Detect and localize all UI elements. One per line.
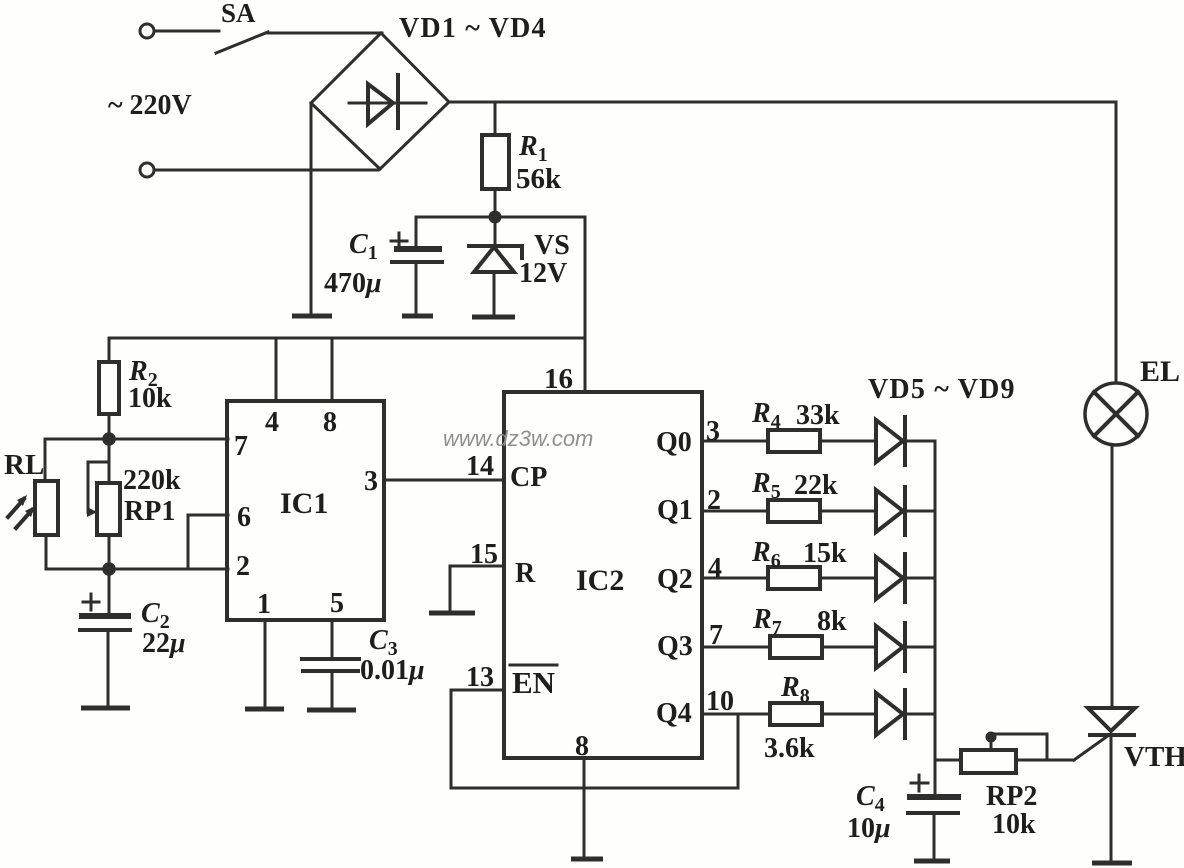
svg-text:IC1: IC1 bbox=[280, 487, 328, 520]
resistor R2 bbox=[99, 338, 119, 439]
ground (pin15) bbox=[429, 611, 475, 616]
svg-text:4: 4 bbox=[265, 407, 279, 438]
Q2 row: wire, resistor R6, diode VD7 bbox=[702, 554, 935, 602]
capacitor C4 bbox=[907, 775, 961, 859]
svg-text:1: 1 bbox=[257, 589, 271, 620]
svg-text:4: 4 bbox=[708, 553, 722, 584]
svg-text:8k: 8k bbox=[817, 606, 847, 637]
svg-text:R1: R1 bbox=[518, 131, 548, 166]
wire bbox=[416, 216, 585, 219]
svg-text:7: 7 bbox=[234, 431, 248, 462]
svg-text:SA: SA bbox=[221, 0, 256, 28]
terminal T2 bbox=[140, 163, 154, 177]
wire pin2 bbox=[46, 568, 228, 571]
svg-text:220k: 220k bbox=[123, 465, 181, 496]
ground (C2) bbox=[81, 706, 130, 711]
svg-text:470μ: 470μ bbox=[324, 268, 382, 299]
thyristor VTH bbox=[1074, 708, 1135, 861]
svg-text:RP1: RP1 bbox=[124, 496, 175, 527]
svg-text:www.dz3w.com: www.dz3w.com bbox=[443, 426, 593, 451]
svg-text:10k: 10k bbox=[128, 383, 172, 414]
zener VS bbox=[469, 217, 522, 315]
svg-text:2: 2 bbox=[236, 551, 250, 582]
svg-text:Q4: Q4 bbox=[656, 698, 692, 729]
svg-text:14: 14 bbox=[466, 451, 494, 482]
wire bbox=[266, 32, 382, 35]
op IC1 box bbox=[227, 401, 384, 620]
svg-text:10μ: 10μ bbox=[847, 813, 891, 844]
wire pin6 bbox=[188, 515, 228, 569]
bridge rectifier VD1~VD4 bbox=[311, 33, 449, 169]
pin 5 bbox=[331, 620, 334, 659]
svg-text:13: 13 bbox=[466, 662, 494, 693]
pin 13 EN wire bbox=[451, 690, 738, 788]
ground (C3) bbox=[307, 708, 356, 713]
capacitor C1 bbox=[391, 217, 442, 314]
ground (pin8) bbox=[571, 857, 603, 862]
pin 8 bbox=[331, 338, 334, 401]
lamp EL bbox=[1085, 383, 1147, 445]
svg-text:EL: EL bbox=[1140, 355, 1180, 388]
terminal T1 bbox=[140, 24, 154, 38]
Q0 row: wire, resistor R4, diode VD5 bbox=[702, 417, 935, 465]
node junction bbox=[489, 211, 502, 224]
svg-text:3: 3 bbox=[364, 466, 378, 497]
wire pin7 bbox=[45, 438, 228, 441]
svg-text:RL: RL bbox=[4, 449, 44, 481]
pin 4 bbox=[275, 338, 278, 401]
svg-text:R4: R4 bbox=[751, 398, 781, 433]
svg-text:56k: 56k bbox=[516, 163, 562, 195]
ground (bridge) bbox=[292, 103, 332, 316]
node junction bbox=[102, 432, 116, 446]
svg-text:8: 8 bbox=[575, 731, 589, 762]
svg-text:22μ: 22μ bbox=[142, 628, 186, 659]
counter IC2 box bbox=[504, 392, 702, 758]
Q3 row: wire, resistor R7, diode VD8 bbox=[702, 623, 935, 671]
photoresistor RL bbox=[8, 439, 58, 569]
svg-text:Q2: Q2 bbox=[657, 564, 693, 595]
svg-text:VTH: VTH bbox=[1124, 741, 1184, 773]
wire top rail bbox=[449, 102, 1116, 383]
svg-text:~ 220V: ~ 220V bbox=[108, 90, 192, 121]
svg-text:3: 3 bbox=[706, 416, 720, 447]
Q1 row: wire, resistor R5, diode VD6 bbox=[702, 487, 935, 535]
svg-text:R6: R6 bbox=[751, 537, 781, 572]
pin 3 bbox=[384, 479, 504, 482]
capacitor C3 bbox=[302, 659, 359, 708]
svg-text:C1: C1 bbox=[349, 229, 378, 264]
ground (C4) bbox=[914, 859, 950, 864]
svg-text:22k: 22k bbox=[794, 470, 838, 501]
svg-text:7: 7 bbox=[709, 620, 723, 651]
svg-text:CP: CP bbox=[510, 462, 547, 493]
node junction bbox=[102, 562, 116, 576]
svg-text:15: 15 bbox=[470, 539, 498, 570]
svg-text:R8: R8 bbox=[780, 672, 810, 707]
right bus wire bbox=[934, 441, 937, 796]
capacitor C2 bbox=[79, 569, 131, 706]
svg-text:Q3: Q3 bbox=[657, 631, 693, 662]
svg-text:6: 6 bbox=[237, 502, 251, 533]
svg-text:Q1: Q1 bbox=[657, 495, 693, 526]
svg-text:RP2: RP2 bbox=[986, 781, 1037, 812]
svg-text:R5: R5 bbox=[751, 468, 781, 503]
Q4 row: wire, resistor R8, diode VD9 bbox=[702, 690, 935, 738]
pin 1 bbox=[264, 620, 267, 708]
svg-text:5: 5 bbox=[330, 588, 344, 619]
svg-text:IC2: IC2 bbox=[576, 564, 624, 597]
svg-text:3.6k: 3.6k bbox=[764, 733, 815, 764]
resistor R1 bbox=[482, 102, 509, 217]
svg-text:10k: 10k bbox=[992, 809, 1036, 840]
svg-text:VD5 ~ VD9: VD5 ~ VD9 bbox=[868, 374, 1016, 405]
wire to pin16 bbox=[584, 217, 587, 392]
svg-text:0.01μ: 0.01μ bbox=[360, 655, 425, 686]
ground (VS) bbox=[472, 315, 515, 320]
svg-text:R: R bbox=[515, 558, 536, 589]
wire bbox=[155, 169, 378, 172]
potentiometer RP1 bbox=[87, 439, 120, 569]
wire bbox=[155, 30, 219, 33]
switch SA bbox=[216, 32, 268, 53]
svg-text:15k: 15k bbox=[803, 538, 847, 569]
svg-text:8: 8 bbox=[323, 407, 337, 438]
ground (C1) bbox=[402, 314, 433, 319]
ground (VTH) bbox=[1092, 861, 1132, 866]
svg-text:10: 10 bbox=[706, 686, 734, 717]
pin 15 R bbox=[450, 566, 504, 612]
svg-text:12V: 12V bbox=[519, 258, 567, 289]
svg-text:VD1 ~ VD4: VD1 ~ VD4 bbox=[399, 13, 547, 44]
svg-text:Q0: Q0 bbox=[656, 427, 692, 458]
svg-text:VS: VS bbox=[534, 230, 570, 261]
svg-text:33k: 33k bbox=[796, 400, 840, 431]
bus wire bbox=[109, 337, 585, 340]
pin 8 bbox=[583, 758, 586, 858]
svg-text:R7: R7 bbox=[752, 604, 782, 639]
svg-text:C4: C4 bbox=[856, 781, 885, 816]
svg-text:2: 2 bbox=[707, 485, 721, 516]
svg-text:EN: EN bbox=[512, 665, 555, 700]
wire lamp to VTH bbox=[1111, 445, 1114, 708]
potentiometer RP2 bbox=[935, 732, 1074, 774]
